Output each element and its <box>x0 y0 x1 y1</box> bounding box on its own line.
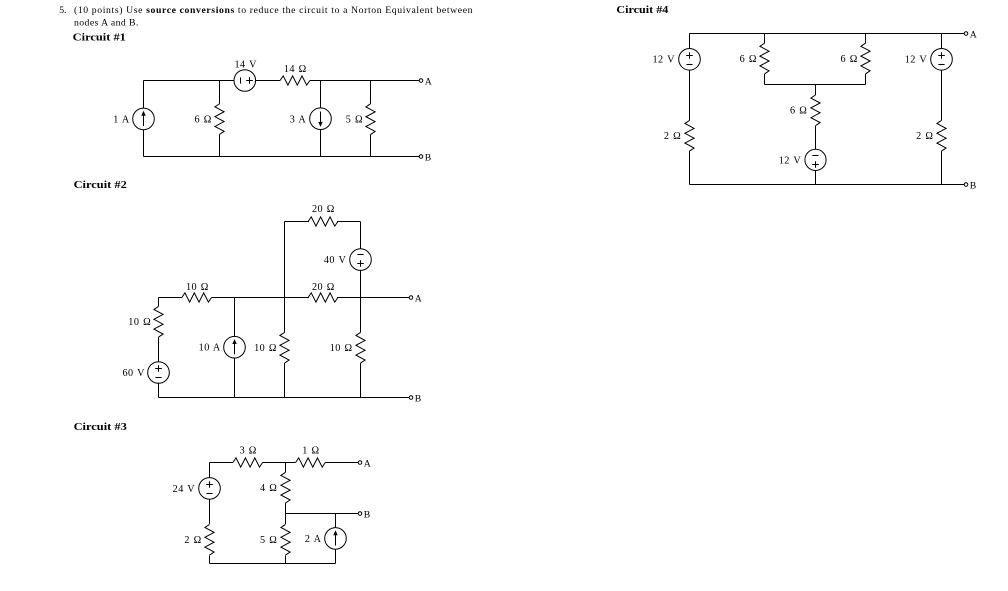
node A terminal (C2) <box>409 296 413 300</box>
wire C4 top rail <box>690 33 965 35</box>
wire C3 mid branch upper <box>285 463 287 473</box>
wire C1 6ohm branch lower <box>219 134 221 156</box>
svg-text:A: A <box>425 77 432 88</box>
svg-text:14 Ω: 14 Ω <box>284 64 307 75</box>
svg-text:20 Ω: 20 Ω <box>312 282 335 293</box>
resistor 10ohm left vertical (C2) <box>154 306 163 337</box>
wire C4 6ohm-2 branch upper <box>865 34 867 44</box>
wire C3 left branch lower <box>209 556 211 564</box>
wire C1 bottom rail <box>144 156 420 158</box>
wire C2 left branch upper <box>158 298 160 307</box>
node A terminal (C4) <box>964 32 968 36</box>
wire C1 top rail right segment <box>310 80 419 82</box>
wire C4 6ohm-2 branch lower <box>865 74 867 85</box>
svg-text:40 V: 40 V <box>324 255 347 266</box>
voltage source 14V (C1) <box>234 70 256 92</box>
resistor 6ohm (C1) <box>215 104 224 135</box>
voltage source 12V left (C4) <box>679 49 701 71</box>
resistor 20ohm top (C2) <box>308 217 338 226</box>
svg-text:5 Ω: 5 Ω <box>346 114 363 125</box>
svg-text:12 V: 12 V <box>905 55 928 66</box>
current source 3A (C1) <box>310 108 332 130</box>
wire C2 right branch lower <box>360 363 362 397</box>
svg-text:B: B <box>425 153 431 164</box>
wire C1 3A branch lower <box>320 129 322 156</box>
svg-text:A: A <box>415 294 422 305</box>
svg-text:10 Ω: 10 Ω <box>330 343 353 354</box>
wire C1 left branch lower <box>143 130 145 157</box>
wire C4 6ohm-1 branch lower <box>764 74 766 85</box>
node B terminal (C1) <box>419 155 423 159</box>
wire C3 top rail right <box>325 462 358 464</box>
wire C1 top rail left segment <box>144 80 234 82</box>
svg-text:3 A: 3 A <box>290 114 307 125</box>
wire C2 mid rail right segment <box>337 297 409 299</box>
wire C2 top branch rail left <box>285 221 309 223</box>
resistor 4ohm (C3) <box>281 472 290 503</box>
wire C4 right branch middle <box>941 70 943 120</box>
svg-text:nodes A and B.: nodes A and B. <box>74 17 138 28</box>
current source 10A (C2) <box>224 336 246 358</box>
resistor 10ohm right vertical (C2) <box>356 332 365 363</box>
wire C1 top rail between source and resistor <box>256 80 280 82</box>
svg-text:12 V: 12 V <box>779 155 802 166</box>
wire C2 mid rail center segment <box>212 297 309 299</box>
svg-text:6 Ω: 6 Ω <box>790 106 807 117</box>
wire C4 left branch middle <box>689 70 691 120</box>
wire C1 5ohm branch upper <box>370 81 372 104</box>
wire C3 left branch middle <box>209 499 211 524</box>
svg-text:5.: 5. <box>59 5 66 16</box>
resistor 10ohm middle vertical (C2) <box>280 332 289 363</box>
wire C3 2A branch lower <box>335 549 337 563</box>
current source 2A (C3) <box>325 528 347 550</box>
wire C1 left branch upper <box>143 81 145 109</box>
svg-text:24 V: 24 V <box>173 484 196 495</box>
svg-text:6 Ω: 6 Ω <box>195 114 212 125</box>
wire C2 10A branch upper <box>234 298 236 337</box>
node B terminal (C2) <box>409 396 413 400</box>
wire C4 right branch lower <box>941 151 943 184</box>
resistor 3ohm (C3) <box>233 458 263 467</box>
wire C3 mid branch lower <box>285 556 287 564</box>
wire C2 top branch rail right <box>337 221 360 223</box>
svg-text:Circuit #3: Circuit #3 <box>74 421 128 433</box>
svg-text:10 A: 10 A <box>199 343 221 354</box>
svg-text:12 V: 12 V <box>652 55 675 66</box>
svg-text:10 Ω: 10 Ω <box>186 282 209 293</box>
svg-text:A: A <box>364 459 371 470</box>
svg-text:5 Ω: 5 Ω <box>260 535 277 546</box>
wire C3 left branch upper <box>209 463 211 478</box>
wire C2 top branch left vertical <box>284 222 286 298</box>
svg-text:20 Ω: 20 Ω <box>312 204 335 215</box>
voltage source 12V right (C4) <box>931 49 953 71</box>
resistor 2ohm right (C4) <box>937 120 946 151</box>
wire C4 left branch upper <box>689 34 691 49</box>
wire C1 6ohm branch upper <box>219 81 221 104</box>
node A terminal (C3) <box>358 461 362 465</box>
resistor 20ohm mid (C2) <box>308 293 338 302</box>
voltage source 60V (C2) <box>148 362 170 384</box>
wire C2 left branch lower <box>158 383 160 398</box>
wire C4 middle stem lower <box>815 171 817 185</box>
wire C4 left branch lower <box>689 151 691 184</box>
resistor 6ohm first (C4) <box>760 43 769 74</box>
wire C3 B rail <box>286 513 359 515</box>
wire C4 bottom rail <box>690 184 965 186</box>
wire C1 3A branch upper <box>320 81 322 109</box>
svg-text:3 Ω: 3 Ω <box>240 446 257 457</box>
svg-text:10 Ω: 10 Ω <box>128 317 151 328</box>
wire C2 right branch top <box>360 222 362 249</box>
wire C4 6ohm-1 branch upper <box>764 34 766 44</box>
wire C2 left branch between <box>158 337 160 362</box>
wire C3 mid branch between <box>285 503 287 524</box>
wire C2 mid rail left stub <box>159 297 182 299</box>
svg-text:60 V: 60 V <box>122 368 145 379</box>
svg-text:2 A: 2 A <box>305 534 322 545</box>
wire C2 10A branch lower <box>234 358 236 398</box>
svg-text:1 Ω: 1 Ω <box>302 446 319 457</box>
svg-text:10 Ω: 10 Ω <box>254 343 277 354</box>
voltage source 12V bottom (C4) <box>805 149 826 170</box>
node B terminal (C3) <box>358 512 362 516</box>
svg-text:B: B <box>970 181 976 192</box>
resistor 5ohm (C1) <box>366 104 375 135</box>
resistor 1ohm (C3) <box>296 458 326 467</box>
svg-text:14 V: 14 V <box>234 59 257 70</box>
current source 1A (C1) <box>133 108 155 130</box>
svg-text:6 Ω: 6 Ω <box>841 54 858 65</box>
resistor 14ohm (C1) <box>280 76 310 85</box>
resistor 6ohm middle (C4) <box>811 95 820 126</box>
voltage source 24V (C3) <box>199 478 221 500</box>
svg-text:A: A <box>970 30 977 41</box>
wire C2 mid branch vertical upper <box>284 298 286 333</box>
svg-text:2 Ω: 2 Ω <box>916 131 933 142</box>
node B terminal (C4) <box>964 183 968 187</box>
wire C3 bottom rail <box>210 563 336 565</box>
svg-text:(10 points) Use source convers: (10 points) Use source conversions to re… <box>74 5 473 16</box>
wire C4 middle stem upper <box>815 85 817 96</box>
svg-text:Circuit #2: Circuit #2 <box>74 179 127 191</box>
svg-text:2 Ω: 2 Ω <box>184 535 201 546</box>
resistor 6ohm second (C4) <box>861 43 870 74</box>
svg-text:Circuit #4: Circuit #4 <box>616 4 669 16</box>
svg-text:B: B <box>415 394 421 405</box>
wire C4 right branch upper <box>941 34 943 49</box>
node A terminal (C1) <box>419 79 423 83</box>
wire C2 right branch mid <box>360 270 362 332</box>
wire C2 bottom rail <box>159 397 410 399</box>
voltage source 40V (C2) <box>350 249 372 271</box>
resistor 10ohm horizontal (C2) <box>182 293 212 302</box>
wire C3 top rail left stub <box>210 462 233 464</box>
wire C4 middle stem between <box>815 126 817 150</box>
svg-text:4 Ω: 4 Ω <box>260 483 277 494</box>
svg-text:Circuit #1: Circuit #1 <box>73 31 126 43</box>
wire C3 2A branch upper <box>335 514 337 528</box>
svg-text:B: B <box>364 510 370 521</box>
resistor 2ohm left (C4) <box>685 120 694 151</box>
svg-text:6 Ω: 6 Ω <box>740 54 757 65</box>
wire C1 5ohm branch lower <box>370 135 372 157</box>
svg-text:2 Ω: 2 Ω <box>664 131 681 142</box>
wire C4 connecting rail <box>765 84 866 86</box>
wire C2 mid branch vertical lower <box>284 363 286 397</box>
resistor 5ohm (C3) <box>281 524 290 555</box>
resistor 2ohm (C3) <box>205 524 214 555</box>
wire C3 top rail middle <box>263 462 296 464</box>
svg-text:1 A: 1 A <box>113 114 130 125</box>
